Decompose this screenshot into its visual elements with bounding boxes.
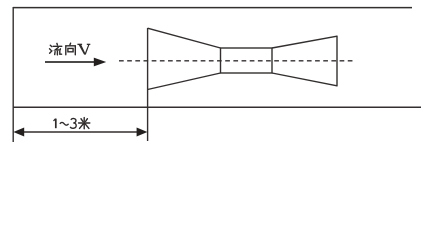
flow arrow shaft	[45, 61, 96, 63]
diverging cone bottom edge	[272, 73, 337, 86]
pipe wall bottom line	[13, 106, 421, 108]
diverging cone right edge	[336, 36, 338, 87]
pipe wall top line	[13, 7, 412, 9]
label: flow-direction character LIU (stream) hand-drawn	[50, 43, 62, 55]
label: flow-direction character XIANG (direction) hand-drawn	[66, 43, 76, 55]
converging cone top edge	[148, 28, 221, 48]
throat rectangle	[221, 48, 273, 73]
dimension text character MI (meter) hand-drawn	[79, 118, 90, 129]
extension line at venturi inlet	[147, 28, 149, 141]
converging cone bottom edge	[148, 73, 221, 90]
dimension arrow head right	[137, 128, 148, 137]
dimension text digit 3 (drawn)	[70, 118, 76, 128]
label: velocity symbol V (serif, drawn)	[77, 44, 90, 55]
dimension arrow head left	[13, 128, 24, 137]
dimension text wave dash	[60, 122, 69, 125]
dimension line shaft	[21, 131, 140, 133]
flow arrow head	[94, 58, 106, 67]
pipe inlet left vertical line	[12, 7, 14, 142]
diverging cone top edge	[272, 36, 337, 48]
dashed centerline	[119, 60, 353, 62]
dimension text digit 1 (drawn)	[54, 119, 56, 129]
